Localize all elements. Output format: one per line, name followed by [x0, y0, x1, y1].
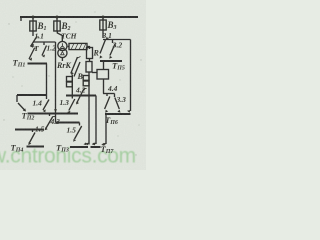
wire TP6 down: [105, 114, 107, 144]
contact 1.1: [31, 37, 37, 47]
relay box: [97, 70, 109, 80]
contact 3.1: [100, 40, 106, 54]
wire vertical A (TP1 bar to 1.4 bracket): [46, 64, 48, 96]
TP5 landing bar: [100, 60, 122, 62]
node dot 1: [32, 16, 35, 19]
contact 4.2: [77, 89, 85, 104]
fuse B1: [32, 17, 34, 36]
heater coil 1: [71, 75, 73, 96]
node dot 3: [102, 16, 105, 19]
heater coil 2: [88, 72, 90, 145]
hatched resistor (top, horizontal): [68, 46, 69, 48]
wire box down: [103, 79, 105, 94]
wire to relay box: [92, 72, 97, 74]
wire corner down right: [95, 96, 97, 145]
resistor R: [87, 48, 93, 59]
top supply bus: [20, 16, 138, 18]
transformer TCH lead: [57, 31, 62, 42]
transformer bottom stub: [61, 58, 63, 61]
right 1.5 bracket: [56, 122, 80, 124]
wire x96 down arrow: [92, 143, 96, 146]
left 1.5 bracket: [15, 129, 44, 131]
1.4 bracket: [17, 94, 47, 96]
contact 1.2: [43, 42, 45, 45]
rheostat RrK (slashed arrow): [71, 57, 78, 74]
right bracket top (3.2): [103, 39, 131, 41]
contact 1.4: [46, 95, 48, 99]
wire vertical B (from 1.2 bracket down): [55, 42, 57, 123]
TP6 landing bar: [105, 113, 131, 115]
contact T: [32, 44, 34, 47]
wire x89 down arrow: [85, 143, 89, 146]
TP1 landing bar: [28, 63, 48, 65]
bracket bar (4.2 row): [66, 95, 96, 97]
resistor 2: [89, 59, 91, 62]
4.4 bracket: [103, 93, 115, 95]
contact 1.3: [71, 96, 73, 99]
bus left tick: [20, 17, 22, 21]
fuse B3: [102, 17, 104, 38]
wire bar to relay box: [103, 61, 105, 70]
contact 1.3 arm arrow: [67, 111, 70, 114]
TP7 landing bar: [91, 146, 101, 148]
contact 1.5 left: [29, 133, 35, 144]
node dot 2: [56, 16, 59, 19]
TP4 landing bar: [27, 146, 45, 148]
contact 3.2: [112, 40, 114, 44]
contact 1.5 right: [75, 126, 82, 139]
contact 4.4: [106, 94, 108, 97]
contact from bracket left end: [18, 103, 25, 111]
TP2 long landing bar: [28, 113, 79, 115]
wire node to bracket 1.2: [33, 41, 56, 43]
TP3 landing bar: [70, 146, 88, 148]
fuse B2: [56, 17, 58, 31]
transformer TCH: [58, 41, 67, 50]
contact 4.3: [49, 114, 51, 117]
contact 3.3: [114, 94, 116, 98]
right long vertical: [130, 40, 132, 112]
